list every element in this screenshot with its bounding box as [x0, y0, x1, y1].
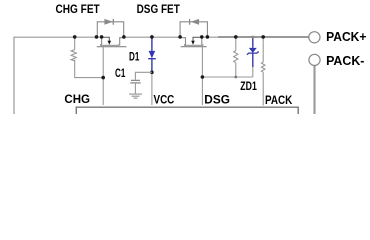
capacitor C1 — [130, 72, 152, 94]
resistor R-dsg (near ZD1) — [234, 37, 238, 77]
resistor R-chg (gate resistor near CHG FET) — [71, 37, 103, 77]
svg-text:C1: C1 — [115, 66, 126, 80]
wire left rail from battery up and across to CHG FET source — [14, 37, 102, 114]
svg-text:CHG: CHG — [64, 92, 90, 106]
transistor CHG FET — [97, 37, 127, 47]
svg-text:D1: D1 — [129, 50, 140, 64]
wire DSG FET source to thick section — [202, 36, 218, 38]
CHG FET body diode (points right) — [104, 19, 113, 25]
wire mid rail between CHG FET drain and DSG FET drain — [124, 36, 180, 38]
node dot D1/C1/VCC junction — [150, 71, 154, 75]
drain vertical with jog — [180, 38, 185, 46]
DSG FET body diode loop — [180, 22, 207, 37]
svg-text:DSG FET: DSG FET — [137, 2, 181, 16]
node dot R-chg top — [73, 35, 77, 39]
bulk stub and arrow — [193, 37, 202, 41]
svg-text:PACK+: PACK+ — [326, 29, 367, 44]
node dots DSG FET — [178, 35, 182, 39]
diode D1 (blue, pointing down) — [148, 38, 156, 73]
terminal PACK+ — [309, 32, 320, 43]
node dot ZD1 top (small gray) — [251, 36, 254, 39]
node dot D1 anode on rail — [150, 35, 154, 39]
node dot DSG gate junction — [201, 75, 205, 79]
svg-text:DSG: DSG — [204, 92, 230, 106]
bulk stub and arrow — [102, 37, 110, 41]
gate bar — [181, 46, 207, 48]
transistor DSG FET — [180, 37, 207, 47]
CHG FET body diode loop — [97, 22, 123, 37]
node dots CHG FET — [95, 35, 99, 39]
channel bar — [100, 44, 119, 46]
resistor R-pack (PACK pin) — [261, 37, 265, 106]
wire CHG gate lead — [102, 47, 104, 105]
ground — [129, 94, 142, 98]
svg-text:PACK-: PACK- — [326, 53, 364, 68]
wire thick PACK+ rail — [218, 36, 309, 38]
svg-text:ZD1: ZD1 — [240, 79, 257, 93]
DSG FET body diode (points left) — [191, 19, 200, 25]
zener ZD1 (blue, pointing down) — [247, 38, 259, 78]
terminal PACK- — [309, 54, 320, 65]
source vertical — [201, 37, 203, 46]
node dot R-dsg top — [234, 35, 238, 39]
wire DSG gate junction to ZD1 bottom — [202, 76, 252, 78]
node dot R-pack top — [261, 35, 265, 39]
wire VCC lead — [151, 72, 153, 105]
gate bar — [97, 46, 127, 48]
wire DSG gate lead — [201, 47, 203, 105]
drain vertical with jog — [120, 38, 124, 46]
node dot CHG gate junction — [101, 76, 105, 80]
wire PACK- stub down — [313, 66, 315, 114]
svg-text:VCC: VCC — [154, 92, 175, 106]
node dot R-dsg bottom — [234, 76, 237, 79]
source vertical — [101, 37, 103, 46]
IC box top edge — [76, 107, 298, 114]
svg-text:PACK: PACK — [265, 93, 293, 107]
svg-text:CHG FET: CHG FET — [56, 2, 101, 16]
channel bar — [184, 44, 203, 46]
